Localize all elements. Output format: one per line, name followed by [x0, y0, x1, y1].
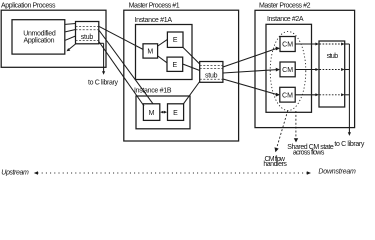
svg-text:E: E: [173, 37, 178, 44]
svg-text:M: M: [147, 49, 153, 56]
wire M to E double arrow: [162, 111, 166, 113]
wire E 1B to master1 stub: [183, 82, 200, 105]
box E instance 1B: [168, 104, 184, 121]
svg-text:E: E: [173, 110, 178, 117]
box M instance 1A: [143, 44, 158, 58]
svg-text:stub: stub: [205, 73, 218, 80]
box Master Process #2: [255, 10, 355, 127]
wire dashed label arrow shared CM state: [295, 111, 297, 139]
svg-text:CM: CM: [282, 42, 293, 49]
box Application Process: [1, 10, 106, 67]
wire CM3 to stub2 and rail: [295, 94, 315, 96]
svg-text:CM: CM: [282, 92, 293, 99]
svg-text:Upstream: Upstream: [1, 170, 29, 177]
box E2 instance 1A: [167, 57, 183, 71]
wire master1 stub to CM1: [223, 48, 277, 67]
svg-text:Application Process: Application Process: [1, 2, 56, 9]
svg-text:Application: Application: [24, 38, 55, 45]
svg-text:M: M: [149, 110, 155, 117]
wire M to E2: [158, 56, 167, 63]
wire CM2 to stub2 and rail: [295, 69, 315, 71]
svg-text:Master Process #1: Master Process #1: [129, 3, 180, 10]
box Unmodified Application: [12, 20, 65, 54]
wire CM1 to stub2 and rail: [295, 43, 315, 45]
wire app to stub 1: [65, 23, 75, 26]
box M instance 1B: [143, 104, 159, 121]
svg-text:Master Process #2: Master Process #2: [259, 3, 311, 10]
wire E2 to master1 stub: [183, 64, 200, 71]
wire app to stub 3: [65, 36, 75, 40]
svg-text:to C library: to C library: [88, 79, 119, 86]
box Instance #1B: [136, 96, 190, 129]
box Instance #2A: [266, 24, 312, 112]
box CM1: [280, 37, 295, 52]
svg-text:Downstream: Downstream: [318, 169, 356, 176]
wire app stub to M instance 1B (lower): [99, 42, 144, 107]
svg-text:stub: stub: [81, 34, 94, 41]
svg-text:stub: stub: [327, 53, 339, 60]
svg-text:E: E: [172, 62, 177, 69]
box CM3: [280, 87, 295, 102]
svg-text:across flows: across flows: [293, 150, 325, 157]
stub master2 (tall): [319, 41, 345, 107]
svg-text:CM: CM: [282, 67, 293, 74]
box E1 instance 1A: [167, 32, 183, 47]
wire app stub to M instance 1B (upper): [99, 30, 153, 104]
svg-text:to C library: to C library: [334, 141, 365, 148]
wire master1 stub to CM3: [223, 79, 277, 95]
wire E1 to master1 stub: [183, 47, 200, 64]
wire M to E1: [158, 39, 168, 46]
box CM2: [280, 62, 295, 77]
box Instance #1A: [136, 25, 193, 80]
stub app-process: [76, 22, 99, 44]
wire rail down to C library: [348, 44, 350, 133]
wire app to stub 2: [65, 30, 75, 32]
svg-text:Instance #1A: Instance #1A: [135, 17, 173, 24]
svg-text:Instance #2A: Instance #2A: [267, 16, 304, 23]
wire master1 stub to CM2: [223, 70, 277, 73]
svg-text:Instance #1B: Instance #1B: [134, 87, 172, 94]
wire dashed label arrow CM flow handlers: [277, 111, 288, 149]
svg-text:handlers: handlers: [263, 161, 287, 168]
wire stub to C library rail: [99, 42, 104, 44]
box Master Process #1: [124, 10, 239, 141]
stub master1: [200, 62, 223, 83]
wire stub upcall arrow to app: [69, 44, 76, 50]
wire app stub to M instance 1A: [99, 26, 143, 49]
wire upstream-downstream dotted arrow: [38, 172, 308, 174]
shared CM state dashed oval: [270, 32, 306, 111]
